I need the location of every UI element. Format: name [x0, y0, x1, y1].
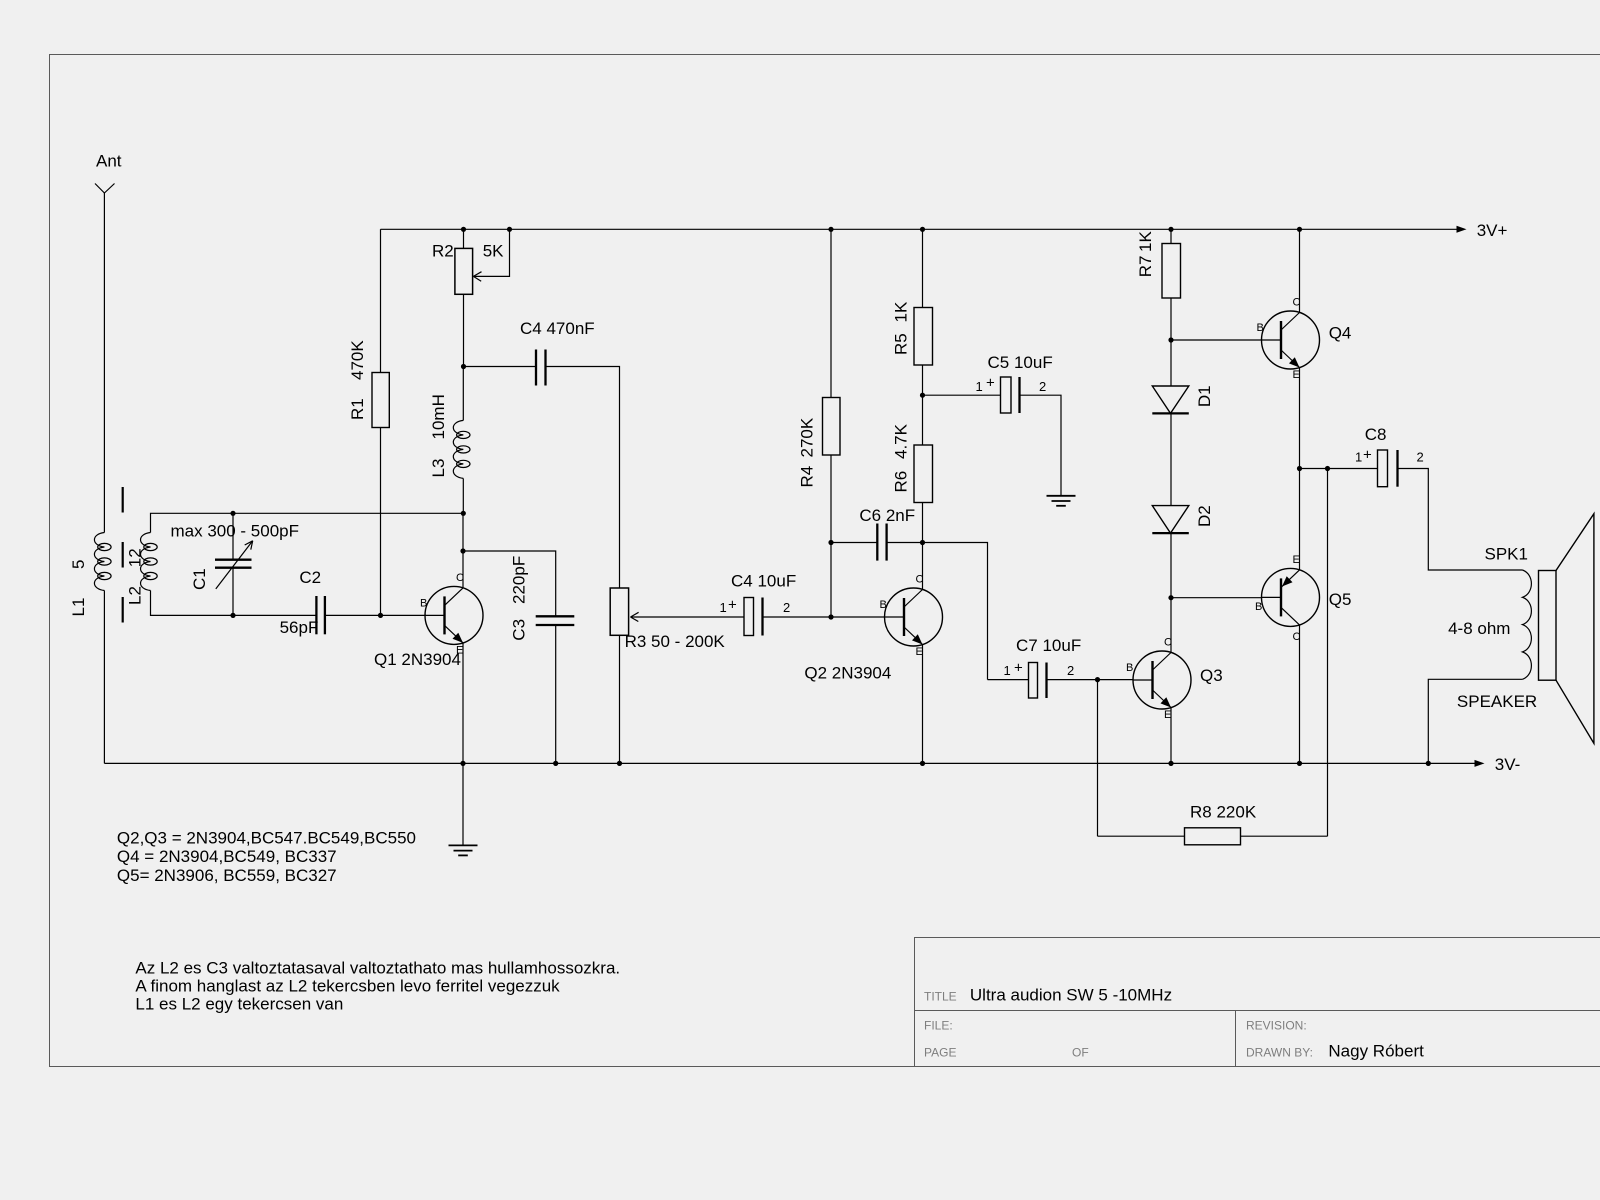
svg-text:B: B [1257, 322, 1264, 334]
wire antenna to L1 [103, 193, 105, 533]
junction Q3 emitter on 3V- rail [1168, 761, 1173, 766]
junction Q2 emitter on 3V- rail [920, 761, 925, 766]
capacitor C2 [315, 596, 317, 634]
junction Q4 collector on 3V+ rail [1297, 227, 1302, 232]
svg-text:2: 2 [783, 600, 790, 615]
wire R2 node to L3 [462, 367, 464, 421]
svg-text:R4: R4 [797, 466, 816, 488]
svg-text:B: B [880, 599, 887, 611]
junction R2 top on 3V+ rail [461, 227, 466, 232]
svg-text:C1: C1 [190, 568, 209, 590]
wire C7 node to R8 [1097, 680, 1099, 837]
junction C6 right node [920, 540, 925, 545]
svg-text:2: 2 [1039, 379, 1046, 394]
wire C5 to ground [1020, 395, 1062, 496]
junction C8 R8 node [1325, 466, 1330, 471]
transistor Q1 [425, 586, 483, 644]
svg-text:SPEAKER: SPEAKER [1457, 692, 1537, 711]
svg-text:12: 12 [126, 548, 145, 567]
svg-text:B: B [420, 597, 427, 609]
junction R2 wiper on 3V+ rail [507, 227, 512, 232]
capacitor C5 [923, 394, 1001, 396]
resistor R5 [922, 229, 924, 307]
svg-text:270K: 270K [797, 417, 816, 457]
wire D2 to Q3 collector [1170, 533, 1172, 598]
potentiometer R2 [463, 229, 465, 248]
capacitor C8 [1300, 468, 1378, 470]
svg-text:Az L2 es C3 valtoztatasaval va: Az L2 es C3 valtoztatasaval valtoztathat… [135, 959, 620, 978]
wire R3 wiper to C4 10uF [631, 616, 745, 618]
junction speaker return on 3V- rail [1426, 761, 1431, 766]
junction C5 branch node [920, 393, 925, 398]
junction C3 branch node [460, 548, 465, 553]
svg-text:R3 50 - 200K: R3 50 - 200K [625, 632, 726, 651]
wire Q1 emitter to ground [462, 643, 464, 846]
svg-text:max 300 - 500pF: max 300 - 500pF [171, 522, 300, 541]
wire D1 to D2 [1170, 413, 1172, 505]
wire 3V- rail [104, 762, 1478, 764]
junction R1 bottom at Q1 base [378, 613, 383, 618]
wire Q5 collector [1299, 625, 1301, 764]
speaker SPK1 [1522, 570, 1531, 679]
node 3V+ arrow [1457, 226, 1467, 233]
svg-text:+: + [1363, 447, 1372, 464]
svg-text:Q4 = 2N3904,BC549, BC337: Q4 = 2N3904,BC549, BC337 [117, 847, 337, 866]
wire R8 to C8 node [1327, 469, 1329, 837]
svg-text:SPK1: SPK1 [1485, 545, 1528, 564]
junction Q1 emitter on 3V- rail [460, 761, 465, 766]
svg-text:OF: OF [1072, 1045, 1089, 1059]
capacitor C7 [988, 679, 1029, 681]
resistor R1 [380, 229, 382, 372]
svg-text:A finom hanglast az L2 tekerc: A finom hanglast az L2 tekercsben levo f… [135, 977, 560, 996]
svg-text:C3: C3 [510, 619, 529, 641]
svg-text:1: 1 [1355, 450, 1362, 465]
svg-text:E: E [1293, 369, 1300, 381]
junction C1 top [230, 511, 235, 516]
svg-text:+: + [1014, 660, 1023, 677]
svg-text:5K: 5K [483, 242, 504, 261]
svg-text:3V+: 3V+ [1477, 221, 1508, 240]
svg-text:2: 2 [1417, 450, 1424, 465]
wire Q3 collector [1170, 598, 1172, 653]
svg-text:R8 220K: R8 220K [1190, 803, 1257, 822]
junction Q2 base node [828, 614, 833, 619]
inductor L2 [141, 533, 158, 591]
junction Q5 collector on 3V- rail [1297, 761, 1302, 766]
svg-text:E: E [1164, 709, 1171, 721]
wire Q4 base [1171, 339, 1262, 341]
svg-text:L1 es L2 egy tekercsen van: L1 es L2 egy tekercsen van [135, 995, 343, 1014]
junction R3 bottom on 3V- rail [617, 761, 622, 766]
capacitor C4 470nF [464, 366, 537, 368]
node 3V- arrow [1475, 760, 1485, 767]
antenna Ant symbol [95, 184, 104, 194]
svg-text:2: 2 [1067, 663, 1074, 678]
wire C8 to speaker [1398, 469, 1523, 571]
junction C6 left on R4 branch [828, 540, 833, 545]
wire L2 bottom to C2 [151, 591, 317, 616]
svg-text:Nagy Róbert: Nagy Róbert [1328, 1042, 1424, 1061]
capacitor C3 [463, 551, 556, 616]
svg-text:C6 2nF: C6 2nF [859, 506, 915, 525]
junction Q5 base node [1168, 595, 1173, 600]
svg-text:D1: D1 [1195, 385, 1214, 407]
transistor Q3 [1133, 651, 1191, 709]
svg-text:C5 10uF: C5 10uF [988, 353, 1053, 372]
diode D2 [1152, 506, 1189, 533]
capacitor C4 10uF [744, 598, 754, 636]
svg-text:FILE:: FILE: [924, 1019, 953, 1033]
svg-text:C: C [456, 572, 464, 584]
svg-text:B: B [1255, 601, 1262, 613]
wire Q2 emitter [922, 645, 924, 764]
svg-text:Q5: Q5 [1329, 590, 1352, 609]
wire Q5 base [1171, 597, 1262, 599]
resistor R4 [830, 229, 832, 397]
svg-text:56pF: 56pF [280, 618, 319, 637]
svg-text:Q5= 2N3906, BC559, BC327: Q5= 2N3906, BC559, BC327 [117, 866, 337, 885]
svg-text:470K: 470K [348, 340, 367, 380]
wire L3 to tank node [462, 478, 464, 513]
svg-text:1K: 1K [891, 301, 910, 322]
wire Q2 collector [922, 543, 924, 590]
wire Q5 emitter [1299, 469, 1301, 570]
wire C2 to Q1 base [325, 614, 426, 616]
inductor L1 [94, 533, 111, 591]
capacitor C1 variable [232, 513, 234, 559]
wire R2 wiper [473, 229, 509, 276]
svg-text:C4 10uF: C4 10uF [731, 572, 796, 591]
junction tank top node [461, 511, 466, 516]
svg-text:5: 5 [69, 560, 88, 569]
wire Q1 collector [462, 513, 464, 588]
svg-text:Q1 2N3904: Q1 2N3904 [374, 650, 461, 669]
svg-text:Q2,Q3 = 2N3904,BC547.BC549,BC5: Q2,Q3 = 2N3904,BC547.BC549,BC550 [117, 829, 416, 848]
svg-text:C8: C8 [1365, 425, 1387, 444]
wire Q4 emitter [1299, 368, 1301, 469]
resistor R7 [1170, 229, 1172, 243]
svg-text:Ant: Ant [96, 151, 122, 170]
svg-text:PAGE: PAGE [924, 1045, 956, 1059]
svg-text:1K: 1K [1136, 231, 1155, 252]
svg-text:1: 1 [1004, 663, 1011, 678]
svg-text:R5: R5 [891, 333, 910, 355]
wire C4 10uF to Q2 base node [763, 616, 832, 618]
ground at Q1 emitter [449, 845, 478, 855]
diode D1 [1170, 340, 1172, 386]
svg-text:+: + [986, 375, 995, 392]
title block box [915, 938, 1600, 1067]
svg-text:1: 1 [976, 379, 983, 394]
wire Q2 base [831, 616, 885, 618]
junction R4 top on 3V+ rail [828, 227, 833, 232]
junction R7 top on 3V+ rail [1168, 227, 1173, 232]
svg-text:Ultra audion SW 5 -10MHz: Ultra audion SW 5 -10MHz [970, 986, 1172, 1005]
svg-text:R6: R6 [891, 471, 910, 493]
svg-text:220pF: 220pF [510, 556, 529, 604]
wire 3V+ rail [381, 228, 1461, 230]
svg-text:Q4: Q4 [1329, 324, 1352, 343]
transistor Q5 [1262, 568, 1320, 626]
svg-text:C4 470nF: C4 470nF [520, 319, 595, 338]
svg-text:1: 1 [720, 600, 727, 615]
junction R2 bottom node [461, 364, 466, 369]
svg-text:L2: L2 [126, 586, 145, 605]
wire C7 to Q3 base [1047, 679, 1134, 681]
junction R5 top on 3V+ rail [920, 227, 925, 232]
wire L2 top to tank node [151, 513, 464, 532]
svg-text:3V-: 3V- [1495, 755, 1521, 774]
resistor R8 [1098, 835, 1185, 837]
svg-text:4.7K: 4.7K [891, 423, 910, 459]
svg-text:E: E [1293, 554, 1300, 566]
junction C3 bottom on 3V- rail [553, 761, 558, 766]
wire C6 to C7 node [887, 543, 988, 680]
transistor Q2 [885, 588, 943, 646]
svg-text:D2: D2 [1195, 505, 1214, 527]
wire speaker return [1428, 679, 1522, 763]
junction Q4 Q5 output node [1297, 466, 1302, 471]
svg-text:10mH: 10mH [429, 394, 448, 439]
capacitor C6 [831, 542, 877, 544]
svg-text:E: E [916, 646, 923, 658]
svg-text:4-8 ohm: 4-8 ohm [1448, 619, 1510, 638]
svg-text:Q3: Q3 [1200, 666, 1223, 685]
junction C7 R8 node [1095, 677, 1100, 682]
junction R7 bottom node [1168, 337, 1173, 342]
svg-text:L1: L1 [69, 598, 88, 617]
wire L1 to 3V- rail [103, 591, 105, 764]
svg-text:R1: R1 [348, 398, 367, 420]
svg-text:B: B [1126, 662, 1133, 674]
svg-text:L3: L3 [429, 459, 448, 478]
wire C4 470nF to R3 top [546, 367, 620, 589]
svg-text:R2: R2 [432, 242, 454, 261]
svg-text:C7 10uF: C7 10uF [1016, 636, 1081, 655]
svg-text:C2: C2 [299, 568, 321, 587]
svg-text:Q2 2N3904: Q2 2N3904 [804, 664, 891, 683]
resistor R6 [922, 395, 924, 445]
svg-text:TITLE: TITLE [924, 990, 957, 1004]
svg-text:+: + [728, 597, 737, 614]
junction C1 bottom [230, 613, 235, 618]
wire Q3 emitter [1170, 708, 1172, 764]
inductor L3 [453, 420, 470, 478]
wire Q4 collector [1299, 229, 1301, 312]
transformer core [122, 487, 124, 623]
potentiometer R3 [610, 588, 628, 635]
transistor Q4 [1262, 311, 1320, 369]
svg-text:DRAWN BY:: DRAWN BY: [1246, 1045, 1313, 1059]
svg-text:REVISION:: REVISION: [1246, 1019, 1307, 1033]
ground at C5 [1047, 496, 1076, 506]
svg-text:R7: R7 [1136, 256, 1155, 278]
